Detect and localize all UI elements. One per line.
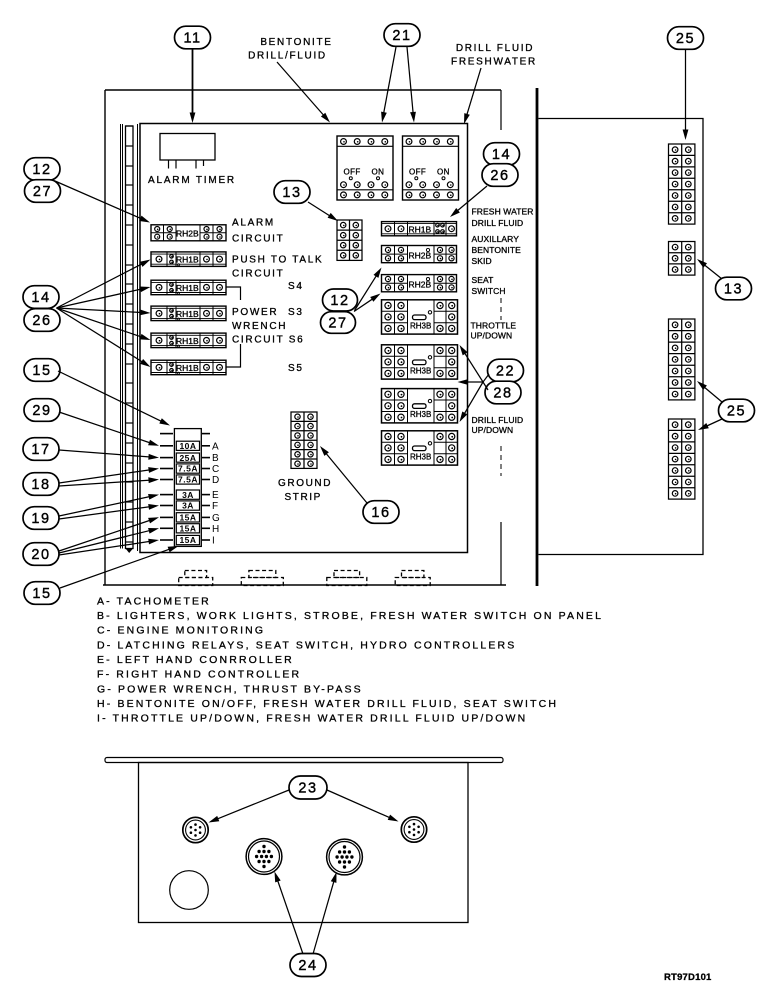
blank hole (170, 871, 209, 910)
svg-text:ALARM TIMER: ALARM TIMER (148, 175, 236, 186)
svg-text:F- RIGHT HAND CONTROLLER: F- RIGHT HAND CONTROLLER (97, 669, 301, 681)
leader bentonite label to switch S1 (277, 62, 324, 116)
callout 25 right (719, 399, 755, 422)
leaders 19 to fuses E,F (59, 496, 151, 516)
svg-text:I- THROTTLE UP/DOWN, FRESH WAT: I- THROTTLE UP/DOWN, FRESH WATER DRILL F… (97, 713, 527, 725)
svg-text:25: 25 (727, 404, 746, 420)
svg-text:G: G (212, 513, 220, 524)
leaders 20 to fuses G,H,I (59, 520, 151, 551)
callout 18 (23, 473, 59, 496)
svg-text:25: 25 (676, 31, 695, 47)
svg-text:18: 18 (31, 477, 50, 493)
switch S1 bentonite drill/fluid (OFF/ON) (337, 136, 393, 200)
svg-text:A: A (212, 441, 219, 452)
svg-text:3A: 3A (182, 501, 194, 511)
svg-text:UP/DOWN: UP/DOWN (471, 331, 513, 341)
door terminal strip 2 (669, 242, 695, 276)
svg-text:14: 14 (492, 147, 511, 163)
leader 11 to alarm timer (192, 50, 194, 115)
leader 26 to RH1B relay (457, 186, 488, 212)
svg-text:23: 23 (298, 781, 317, 797)
svg-text:UP/DOWN: UP/DOWN (472, 425, 514, 435)
connector small left (23) (183, 817, 208, 842)
callout 26 right (482, 164, 518, 187)
svg-text:20: 20 (31, 547, 50, 563)
svg-text:RH3B: RH3B (410, 452, 431, 461)
svg-text:F: F (212, 501, 218, 512)
svg-text:AUXILLARY: AUXILLARY (472, 234, 520, 244)
switch S2 drill fluid freshwater (OFF/ON) (403, 136, 459, 200)
svg-text:ON: ON (437, 168, 450, 177)
svg-text:13: 13 (282, 185, 301, 201)
terminal strip (13) on panel (337, 220, 362, 260)
dashed connector footprint 2 (241, 571, 283, 586)
callout 17 (23, 438, 59, 461)
svg-text:STRIP: STRIP (285, 492, 322, 503)
svg-text:PUSH TO TALK: PUSH TO TALK (232, 255, 323, 266)
svg-text:RH1B: RH1B (176, 363, 199, 373)
svg-text:RT97D101: RT97D101 (664, 972, 712, 983)
dashed connector footprint 1 (179, 571, 213, 586)
relay RH1B (push to talk circuit) (151, 252, 226, 267)
relay RH3B (drill fluid up/down 2) (382, 431, 458, 465)
svg-text:DRILL FLUID: DRILL FLUID (456, 43, 534, 54)
svg-text:RH1B: RH1B (176, 309, 199, 319)
relay RH1B S6 (power wrench) (151, 333, 226, 348)
svg-text:SKID: SKID (472, 256, 492, 266)
svg-text:10A: 10A (179, 441, 196, 451)
leaders 21 to switches (384, 47, 397, 114)
svg-text:RH2B: RH2B (176, 228, 199, 238)
relay RH1B (fresh water drill fluid) (382, 222, 457, 236)
callout 21 (384, 24, 420, 47)
relay RH1B S4 (power wrench) (151, 280, 226, 295)
svg-text:15A: 15A (179, 524, 196, 534)
leader freshwater label to switch S2 (467, 68, 482, 116)
svg-text:OFF: OFF (409, 168, 426, 177)
connector large right (24) (327, 839, 363, 875)
svg-text:14: 14 (31, 290, 50, 306)
svg-text:FRESHWATER: FRESHWATER (451, 57, 537, 68)
callout 22 (488, 359, 524, 382)
relay RH3B (drill fluid up/down 1) (382, 389, 458, 423)
svg-text:16: 16 (371, 505, 390, 521)
leaders 14/26 to relays (57, 263, 143, 308)
svg-text:15A: 15A (179, 535, 196, 545)
leader 13 right to strip 2 (704, 264, 722, 279)
svg-text:H- BENTONITE ON/OFF, FRESH WAT: H- BENTONITE ON/OFF, FRESH WATER DRILL F… (97, 698, 558, 710)
leaders 25 right to strips 3,4 (704, 387, 723, 403)
power wrench group bracket (226, 287, 241, 367)
hinge strip (121, 124, 138, 553)
callout 26 (24, 309, 60, 332)
leaders 18 to fuses C,D (59, 470, 151, 483)
svg-text:OFF: OFF (344, 168, 361, 177)
svg-text:ALARM: ALARM (232, 218, 275, 229)
svg-text:WRENCH: WRENCH (232, 321, 287, 332)
bottom view box (139, 763, 469, 923)
svg-text:D- LATCHING RELAYS, SEAT SWITC: D- LATCHING RELAYS, SEAT SWITCH, HYDRO C… (97, 639, 516, 651)
callout 16 (363, 501, 399, 524)
svg-text:RH1B: RH1B (176, 336, 199, 346)
svg-text:C: C (212, 464, 219, 475)
callout 24 (290, 954, 326, 977)
door terminal strip 1 (669, 144, 695, 224)
dashed connector footprint 3 (327, 571, 367, 586)
svg-text:BENTONITE: BENTONITE (260, 37, 332, 48)
svg-text:BENTONITE: BENTONITE (472, 245, 522, 255)
svg-text:CIRCUIT: CIRCUIT (232, 269, 284, 280)
svg-text:22: 22 (496, 364, 515, 380)
callout 27 (25, 180, 61, 203)
svg-text:25A: 25A (179, 453, 196, 463)
svg-text:I: I (212, 536, 215, 547)
svg-text:7.5A: 7.5A (178, 464, 198, 474)
svg-text:12: 12 (330, 293, 349, 309)
svg-text:15: 15 (32, 586, 51, 602)
svg-text:G- POWER WRENCH, THRUST BY-PAS: G- POWER WRENCH, THRUST BY-PASS (97, 683, 363, 695)
leader 12/27 to alarm relay (55, 181, 142, 219)
svg-text:29: 29 (32, 403, 51, 419)
callout 27 middle (321, 312, 356, 334)
leader 15 to fuse block top (58, 371, 162, 422)
svg-text:S4: S4 (288, 281, 304, 292)
svg-text:17: 17 (31, 442, 50, 458)
ground strip (291, 412, 317, 468)
svg-text:RH1B: RH1B (409, 225, 432, 235)
svg-text:H: H (212, 524, 219, 535)
svg-text:RH3B: RH3B (410, 366, 431, 375)
svg-text:A- TACHOMETER: A- TACHOMETER (97, 595, 211, 607)
svg-text:C- ENGINE MONITORING: C- ENGINE MONITORING (97, 625, 265, 637)
svg-text:SEAT: SEAT (472, 275, 494, 285)
callout 15 top (24, 359, 60, 382)
leader 29 to fuse A (59, 412, 151, 443)
svg-text:DRILL FLUID: DRILL FLUID (472, 415, 524, 425)
callout 20 (23, 543, 59, 566)
svg-text:RH1B: RH1B (176, 283, 199, 293)
connector small right (23) (401, 817, 426, 842)
leader 25 to door strip 1 (685, 50, 687, 132)
svg-text:B- LIGHTERS, WORK LIGHTS, STRO: B- LIGHTERS, WORK LIGHTS, STROBE, FRESH … (97, 610, 603, 622)
svg-text:13: 13 (724, 282, 743, 298)
leader 16 to ground strip (325, 453, 367, 503)
svg-text:11: 11 (183, 31, 201, 47)
svg-text:ON: ON (372, 168, 385, 177)
svg-text:19: 19 (31, 511, 50, 527)
relay RH2B (seat switch) (382, 275, 457, 292)
svg-text:3A: 3A (182, 490, 194, 500)
relay RH1B S5 (power wrench) (151, 360, 226, 375)
svg-text:21: 21 (392, 28, 411, 44)
svg-text:S3: S3 (288, 307, 304, 318)
callout 29 (24, 399, 60, 422)
alarm timer box (160, 134, 215, 169)
leaders 22/28 to RH3B relays (483, 374, 489, 382)
callout 12 middle (323, 289, 358, 311)
leader 17 to fuse B (59, 450, 151, 457)
svg-text:27: 27 (33, 184, 52, 200)
svg-text:CIRCUIT: CIRCUIT (232, 234, 284, 245)
svg-text:12: 12 (32, 162, 51, 178)
relay RH3B (throttle up/down 2) (382, 345, 458, 379)
callout 28 (485, 381, 521, 404)
svg-text:RH3B: RH3B (410, 321, 431, 330)
svg-text:27: 27 (328, 316, 347, 332)
svg-text:15: 15 (32, 363, 51, 379)
callout 11 (175, 26, 211, 49)
svg-text:28: 28 (493, 386, 512, 402)
svg-text:DRILL FLUID: DRILL FLUID (472, 218, 524, 228)
label POWER WRENCH CIRCUIT S6 (230, 300, 288, 344)
fuse block (160, 429, 220, 547)
connector large left (24) (246, 839, 282, 875)
relay RH2B (auxillary bentonite skid) (382, 246, 457, 263)
svg-text:24: 24 (298, 958, 317, 974)
callout 13 right (716, 277, 752, 300)
door terminal strip 3 (669, 319, 695, 400)
svg-text:RH1B: RH1B (176, 255, 199, 265)
callout 14 (23, 286, 59, 309)
leaders 24 to large connectors (277, 880, 303, 955)
callout 12 (24, 158, 60, 181)
legend list A-I (97, 595, 603, 724)
svg-text:CIRCUIT S6: CIRCUIT S6 (232, 335, 304, 346)
callout 25 top (668, 27, 704, 50)
relay RH1B S3 (power wrench) (151, 306, 226, 321)
bottom view flange (105, 758, 503, 763)
svg-text:POWER: POWER (232, 307, 278, 318)
svg-text:26: 26 (490, 168, 509, 184)
leader 13 to terminal strip (308, 202, 331, 217)
dashed connector footprint 4 (395, 571, 430, 586)
svg-text:THROTTLE: THROTTLE (471, 321, 517, 331)
svg-text:SWITCH: SWITCH (472, 286, 506, 296)
relay RH3B (throttle up/down) (382, 300, 458, 334)
svg-text:26: 26 (32, 313, 51, 329)
callout 23 (289, 776, 327, 799)
relay RH2B (alarm circuit) (151, 225, 226, 241)
leaders 23 to small connectors (216, 790, 289, 819)
svg-text:DRILL/FLUID: DRILL/FLUID (248, 51, 327, 62)
leader 15 bottom to fuse block bottom (60, 549, 171, 588)
svg-text:S5: S5 (288, 363, 304, 374)
callout 14 right (484, 143, 520, 166)
svg-text:GROUND: GROUND (278, 478, 332, 489)
right door outline (539, 119, 704, 555)
svg-text:RH3B: RH3B (410, 410, 431, 419)
svg-text:E- LEFT HAND CONRROLLER: E- LEFT HAND CONRROLLER (97, 654, 294, 666)
callout 13 (panel strip) (274, 181, 310, 204)
right enclosure wall (536, 88, 539, 586)
main panel outer enclosure (103, 90, 506, 586)
leaders middle 12/27 to RH2B relays (355, 275, 378, 311)
svg-text:B: B (212, 453, 219, 464)
svg-text:D: D (212, 475, 219, 486)
callout 15 bottom (24, 582, 60, 605)
svg-text:7.5A: 7.5A (178, 475, 198, 485)
callout 19 (23, 507, 59, 530)
svg-text:FRESH WATER: FRESH WATER (472, 207, 534, 217)
main panel inner plate (140, 124, 468, 553)
door terminal strip 4 (669, 419, 695, 499)
svg-text:15A: 15A (179, 513, 196, 523)
svg-text:E: E (212, 490, 219, 501)
